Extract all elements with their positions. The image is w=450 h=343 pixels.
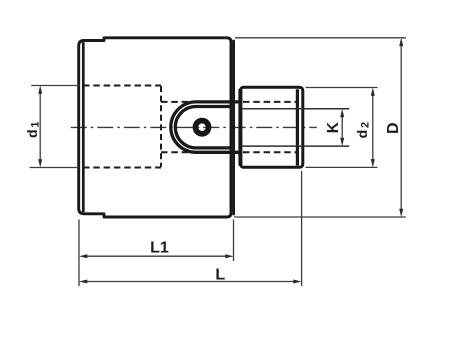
- d2 arrow up: [371, 88, 375, 96]
- D arrow down: [399, 209, 403, 217]
- L left extension: [78, 220, 80, 287]
- hidden bore end vertical: [160, 86, 162, 167]
- d2 arrow down: [371, 159, 375, 167]
- svg-text:D: D: [385, 122, 402, 134]
- d1 extension bottom: [30, 167, 79, 169]
- L1 right extension: [233, 220, 235, 262]
- D arrow up: [399, 38, 403, 46]
- L dimension line: [85, 281, 297, 283]
- bore K line bottom: [242, 145, 349, 147]
- hidden bore d1 top: [83, 85, 161, 87]
- D dimension line: [400, 44, 402, 212]
- bore K line top: [242, 108, 349, 110]
- hidden boss line top-left: [161, 101, 197, 103]
- L right extension: [301, 171, 303, 286]
- K arrow down: [340, 138, 344, 146]
- shank cylinder outline: [240, 87, 302, 167]
- body front chamfer line: [82, 42, 85, 212]
- L arrow right: [293, 280, 301, 284]
- hidden bore shank top: [243, 101, 297, 103]
- d1 dimension line: [39, 91, 41, 162]
- L1 dimension line: [85, 255, 229, 257]
- d2 extension bottom: [306, 166, 378, 168]
- D extension bottom: [234, 216, 406, 218]
- shank cylinder left edge thickening: [238, 89, 242, 166]
- screw hole: [195, 121, 208, 134]
- clamp boss outer contour: [171, 102, 241, 152]
- d1 extension top: [31, 85, 79, 87]
- clamp boss inner contour: [175, 107, 231, 148]
- centerline axis: [71, 126, 317, 128]
- hidden bore shank bottom: [243, 151, 297, 153]
- svg-text:L1: L1: [150, 240, 169, 257]
- d2 extension top: [306, 87, 378, 89]
- L arrow left: [79, 280, 87, 284]
- K arrow up: [340, 109, 344, 117]
- d1 arrow down: [38, 159, 42, 167]
- d1 arrow up: [38, 86, 42, 94]
- shank end chamfer line: [296, 89, 299, 165]
- hidden boss line bottom-left: [161, 151, 197, 153]
- K dimension line: [341, 115, 343, 141]
- d2 dimension line: [372, 93, 374, 162]
- L1 arrow right: [225, 254, 233, 258]
- body outline (main cylindrical body): [79, 38, 231, 217]
- svg-text:L: L: [215, 266, 225, 283]
- D extension top: [235, 37, 406, 39]
- body rear chamfer line: [232, 40, 235, 216]
- L1 arrow left: [79, 254, 87, 258]
- svg-text:K: K: [325, 121, 342, 133]
- hidden bore d1 bottom: [83, 167, 161, 169]
